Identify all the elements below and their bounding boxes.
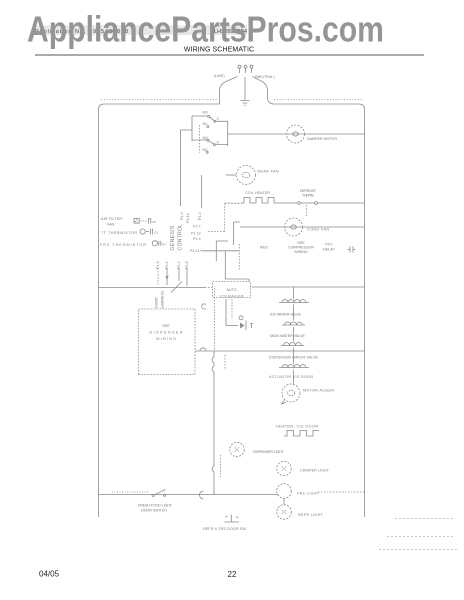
compressor run capacitor <box>348 247 356 253</box>
wire dotted to fresh food switch <box>112 491 149 493</box>
rear fan lead <box>226 174 236 176</box>
svg-text:(LINE): (LINE) <box>214 74 225 78</box>
outer box top dotted inner line <box>101 99 362 101</box>
wire heater to defrost thermostat <box>277 202 298 204</box>
lamp dispenser light <box>230 442 244 456</box>
svg-text:MOTOR AUGER: MOTOR AUGER <box>303 389 334 393</box>
lamp refr light <box>277 505 292 520</box>
cond fan motor <box>285 218 303 236</box>
svg-text:AUTO: AUTO <box>226 288 236 292</box>
heater ice door element <box>284 431 319 437</box>
wire P2-4 vertical <box>178 268 180 281</box>
wire defrost to right edge <box>318 202 365 204</box>
air filter fan motor box <box>134 219 139 224</box>
wire P1-5 dashed vertical <box>157 268 159 286</box>
svg-text:C: C <box>217 117 220 121</box>
svg-text:P2-8: P2-8 <box>185 261 189 269</box>
svg-text:SEE: SEE <box>297 241 305 245</box>
svg-text:WIRING SCHEMATIC: WIRING SCHEMATIC <box>184 47 254 54</box>
svg-text:HARNESS: HARNESS <box>161 290 165 308</box>
svg-text:P2: P2 <box>153 220 157 224</box>
svg-text:COMPRESSOR: COMPRESSOR <box>288 246 314 250</box>
door switch on main bus <box>171 282 182 293</box>
switch NC1 terminal <box>207 126 209 128</box>
svg-text:GENESIS: GENESIS <box>170 225 176 250</box>
svg-text:FRZ THERMISTOR: FRZ THERMISTOR <box>100 243 146 247</box>
dashed wire NC terminals <box>199 125 201 153</box>
main bus left segment <box>99 287 206 289</box>
switch NC2 terminal <box>206 151 208 153</box>
title underline <box>35 54 424 56</box>
wire dashed stub right of mid <box>224 355 226 369</box>
svg-text:COIL HEATER: COIL HEATER <box>245 191 270 195</box>
bus bottom dashed right <box>318 491 365 493</box>
svg-text:ACTUATOR ICE DOOR: ACTUATOR ICE DOOR <box>269 375 313 379</box>
svg-text:THERM: THERM <box>302 194 314 198</box>
svg-text:ICE WATER VALVE: ICE WATER VALVE <box>270 313 302 317</box>
wire P2-1 vertical with arrow <box>166 268 168 285</box>
bus line mid <box>195 350 365 352</box>
wire valve join 1 <box>293 305 295 321</box>
svg-text:NC: NC <box>203 148 209 152</box>
ice dispenser dashed box <box>139 309 196 375</box>
solenoid actuator ice door <box>279 365 309 368</box>
svg-text:P1-4: P1-4 <box>198 212 202 220</box>
lamp frz light <box>277 484 292 499</box>
svg-text:PTC: PTC <box>325 243 333 247</box>
ground symbol <box>241 101 250 106</box>
svg-text:22: 22 <box>228 570 237 579</box>
wire auger drop <box>293 370 295 385</box>
wire neutral side from plug <box>253 77 275 105</box>
solenoid main water valve <box>282 322 305 325</box>
wire refr light drop <box>283 499 285 505</box>
wire P1-12 dashed branch <box>208 203 225 231</box>
wire long dashed vertical left of icemaker <box>214 288 216 351</box>
wire icemaker internals <box>226 299 238 326</box>
svg-text:RED: RED <box>260 246 268 250</box>
switch bank feed wire <box>181 116 208 141</box>
svg-text:04/05: 04/05 <box>39 570 60 579</box>
svg-text:NO: NO <box>203 136 209 140</box>
wire P1-11 branch <box>201 251 250 282</box>
wire mid vertical lower <box>212 351 214 495</box>
svg-text:TT THERMISTOR: TT THERMISTOR <box>101 231 137 235</box>
fresh food door switch <box>152 494 154 496</box>
svg-text:P1-5: P1-5 <box>156 261 160 269</box>
wire actuator drop <box>293 351 295 364</box>
svg-text:NC: NC <box>203 122 209 126</box>
wire long vertical to control P1-2 <box>180 130 182 206</box>
switch C1 terminal <box>214 120 216 122</box>
switch NO1 terminal <box>208 115 210 117</box>
svg-text:DEFROST: DEFROST <box>300 189 317 193</box>
bus line bottom <box>99 494 279 496</box>
solenoid dispenser water valve <box>281 343 304 346</box>
svg-text:P1-11: P1-11 <box>190 249 199 253</box>
svg-text:P2-4: P2-4 <box>177 261 181 269</box>
svg-text:DOOR: DOOR <box>155 297 159 308</box>
svg-text:P1-9: P1-9 <box>193 237 201 241</box>
svg-text:DISPENSER: DISPENSER <box>150 331 183 335</box>
faint stamp line 3 <box>379 549 457 551</box>
svg-text:P2-1: P2-1 <box>165 261 169 269</box>
svg-text:WIRING: WIRING <box>294 250 308 254</box>
wire hop over bus <box>200 348 206 351</box>
faint stamp line 1 <box>395 518 455 520</box>
svg-text:MAIN WATER VALVE: MAIN WATER VALVE <box>270 334 306 338</box>
svg-text:DISPENSER WATER VALVE: DISPENSER WATER VALVE <box>269 356 319 360</box>
svg-text:(NEUTRAL): (NEUTRAL) <box>255 75 275 79</box>
outer box left edge <box>99 104 220 517</box>
svg-text:AppliancePartsPros.com: AppliancePartsPros.com <box>27 9 384 50</box>
svg-text:COND FAN: COND FAN <box>307 228 329 232</box>
wire line side from plug <box>220 77 238 105</box>
wire valve join 3 <box>293 348 295 352</box>
switch C2 terminal <box>213 144 215 146</box>
wire vertical to control P1-4 <box>201 175 203 208</box>
rear fan motor <box>237 166 256 185</box>
air filter fan connector <box>149 219 151 224</box>
wire ice water valve drop <box>293 287 295 299</box>
coil heater element <box>242 198 277 204</box>
svg-text:NO: NO <box>203 111 209 115</box>
defrost thermostat probe dashed <box>306 206 308 217</box>
svg-text:DISPENSER LIGHT: DISPENSER LIGHT <box>253 450 285 454</box>
label T <box>250 324 253 329</box>
auto icemaker dashed box <box>213 282 251 298</box>
wire hop bottom bus <box>200 491 204 499</box>
svg-text:(1): (1) <box>162 242 166 246</box>
svg-text:C: C <box>217 141 220 145</box>
outer box right edge <box>274 104 365 517</box>
wire coil heater lead <box>225 202 242 204</box>
svg-text:P1-12: P1-12 <box>191 232 201 236</box>
switch NO2 terminal <box>207 139 209 141</box>
switch NO1 <box>210 117 215 121</box>
damper motor <box>287 125 305 143</box>
motor auger arrow <box>281 401 286 405</box>
tt thermistor sensor <box>140 229 145 234</box>
wire cond fan branch <box>234 222 241 245</box>
svg-text:REFR & FRZ DOOR SW: REFR & FRZ DOOR SW <box>203 527 247 531</box>
C mark near icemaker <box>202 304 206 309</box>
svg-text:AIR FILTER: AIR FILTER <box>101 217 122 221</box>
svg-text:HEATER, ICE DOOR: HEATER, ICE DOOR <box>276 425 318 429</box>
svg-text:SEE: SEE <box>162 324 170 328</box>
wire valve join 2 <box>293 327 295 342</box>
switch NO2 <box>209 141 214 144</box>
faint stamp line 2 <box>387 536 455 538</box>
wire dashed stub near dispenser lamp <box>220 455 222 477</box>
wire damper motor row <box>228 133 365 135</box>
wire C terminals to right bus <box>216 121 228 146</box>
svg-text:REFR LIGHT: REFR LIGHT <box>298 513 324 517</box>
svg-text:P1-13: P1-13 <box>186 213 190 223</box>
svg-text:FAN: FAN <box>107 223 115 227</box>
ground wire <box>244 77 246 100</box>
svg-text:RELAY: RELAY <box>323 248 335 252</box>
svg-text:P1-2: P1-2 <box>180 212 184 220</box>
svg-text:CONTROL: CONTROL <box>178 224 184 251</box>
refr frz door switch <box>225 515 240 523</box>
svg-text:REAR FAN: REAR FAN <box>258 170 279 174</box>
svg-text:WIRING: WIRING <box>156 337 176 341</box>
frz thermistor sensor <box>152 241 157 246</box>
lamp crisper light <box>277 461 291 475</box>
publication bar <box>33 26 247 36</box>
wire P2-8 vertical <box>186 268 188 286</box>
motor auger <box>282 384 300 402</box>
wire P1-9 branch <box>216 241 228 261</box>
svg-text:CRISPER LIGHT: CRISPER LIGHT <box>300 469 330 473</box>
power plug prongs <box>240 69 252 74</box>
defrost thermostat terminals <box>298 202 301 205</box>
main bus right segment <box>252 286 365 288</box>
solenoid ice water valve <box>279 300 309 303</box>
svg-text:DOOR SWITCH: DOOR SWITCH <box>141 509 167 513</box>
svg-text:P1-7: P1-7 <box>193 224 201 228</box>
wire cond fan row <box>240 226 365 228</box>
svg-text:FRZ LIGHT: FRZ LIGHT <box>297 492 320 496</box>
icemaker thermostat sensor <box>239 316 243 320</box>
svg-text:(2): (2) <box>154 230 158 234</box>
svg-text:FRESH FOOD LIGHT: FRESH FOOD LIGHT <box>138 504 173 508</box>
svg-text:DAMPER MOTOR: DAMPER MOTOR <box>307 137 337 141</box>
